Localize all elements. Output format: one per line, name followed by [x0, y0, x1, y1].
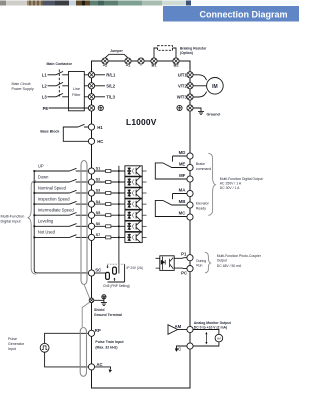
brace digital input — [28, 181, 36, 275]
optocoupler S3 — [125, 188, 142, 198]
svg-text:Output: Output — [217, 259, 227, 263]
wire W/T3 to motor — [193, 92, 207, 97]
svg-text:V/T2: V/T2 — [178, 83, 188, 88]
svg-text:Input: Input — [8, 347, 16, 351]
svg-text:MC: MC — [179, 211, 186, 216]
voltage double arrow — [205, 332, 207, 345]
wire filter to T/L3 — [84, 96, 88, 98]
shield ground terminal — [89, 298, 94, 303]
svg-text:During: During — [196, 259, 206, 263]
digital input common bus — [34, 171, 88, 273]
svg-text:S7: S7 — [96, 233, 101, 237]
optocoupler S1 — [125, 166, 142, 176]
svg-text:AM: AM — [217, 337, 221, 341]
svg-text:L2: L2 — [42, 83, 48, 88]
ground symbol — [198, 111, 204, 114]
svg-text:DC 48V / 50 mA: DC 48V / 50 mA — [217, 264, 242, 268]
svg-text:Filter: Filter — [72, 93, 81, 97]
svg-text:H1: H1 — [97, 125, 103, 130]
wire to ground symbol — [193, 108, 201, 111]
terminal - — [138, 58, 144, 64]
svg-text:Main Contactor: Main Contactor — [47, 62, 73, 66]
terminal S2 — [88, 179, 94, 185]
svg-text:HC: HC — [97, 139, 103, 144]
svg-text:SC: SC — [95, 268, 101, 273]
svg-text:Intermediate Speed: Intermediate Speed — [38, 208, 74, 213]
svg-text:Leveling: Leveling — [38, 219, 54, 224]
svg-text:Multi-Function: Multi-Function — [1, 215, 25, 219]
terminal AC pulse common — [88, 364, 94, 370]
meter M2 — [215, 334, 223, 342]
photo thumbnail strip — [0, 1, 299, 6]
svg-text:DC 0 to +10 V (2 mA): DC 0 to +10 V (2 mA) — [194, 325, 227, 329]
svg-text:R/L1: R/L1 — [106, 73, 116, 78]
wire SC to jumper — [95, 272, 106, 274]
terminal S7 — [88, 234, 94, 240]
earth circle small — [102, 295, 106, 299]
svg-text:Multi-Function Digital Output: Multi-Function Digital Output — [220, 177, 263, 181]
svg-text:Analog Monitor Output: Analog Monitor Output — [194, 321, 232, 325]
svg-text:Pulse: Pulse — [8, 337, 17, 341]
svg-text:S6: S6 — [96, 222, 101, 226]
terminal SC — [88, 270, 94, 276]
input resistor S7 — [95, 236, 125, 238]
terminal PE ground — [88, 105, 94, 111]
svg-text:(Option): (Option) — [180, 51, 193, 55]
shield drain wire top — [84, 284, 90, 298]
optocoupler S7 — [125, 232, 142, 242]
earth symbol right — [177, 105, 182, 110]
pulse generator symbol — [40, 343, 49, 352]
svg-text:DC 30V / 1 A: DC 30V / 1 A — [220, 186, 240, 190]
svg-text:Jumper: Jumper — [110, 49, 123, 53]
wire to PC — [174, 267, 187, 270]
line filter FL1 — [69, 72, 85, 111]
svg-text:command: command — [196, 167, 211, 171]
svg-text:Ground: Ground — [207, 112, 221, 116]
svg-text:W/T3: W/T3 — [177, 95, 188, 100]
contactor mechanical link (dashed) — [58, 70, 60, 98]
svg-text:T/L3: T/L3 — [106, 95, 115, 100]
optocoupler S5 — [125, 210, 142, 220]
svg-text:U/T1: U/T1 — [178, 72, 188, 77]
terminal +1 — [125, 58, 131, 64]
svg-text:IM: IM — [212, 84, 218, 90]
CN5 sink/source jumper block — [106, 264, 125, 282]
svg-text:Elevator: Elevator — [196, 202, 210, 206]
base block jumper loop — [63, 127, 88, 141]
terminal RP — [88, 330, 94, 336]
jumper between +2 and +1 — [105, 54, 128, 58]
svg-text:S1: S1 — [96, 167, 101, 171]
input resistor S5 — [95, 214, 125, 216]
optocoupler S6 — [125, 221, 142, 231]
pulse generator PG loop — [45, 333, 89, 367]
input resistor S1 — [95, 170, 125, 172]
relay output MD/ME/MF — [155, 156, 187, 179]
title banner — [163, 6, 299, 22]
wire filter to R/L1 — [84, 74, 88, 76]
terminal B1 — [151, 58, 157, 64]
wire PE inside filter — [69, 107, 89, 109]
svg-text:AM: AM — [175, 324, 182, 329]
svg-text:Ground Terminal: Ground Terminal — [94, 313, 122, 317]
terminal S3 — [88, 190, 94, 196]
svg-text:RP: RP — [95, 328, 101, 333]
terminal S/L2 — [88, 83, 94, 89]
svg-text:B2: B2 — [173, 62, 179, 67]
relay output MA/MB/MC — [155, 194, 187, 217]
terminal +2 — [102, 58, 108, 64]
svg-text:L1: L1 — [42, 72, 48, 77]
svg-text:MA: MA — [179, 188, 186, 193]
optocoupler S4 — [125, 199, 142, 209]
earth symbol left — [98, 105, 103, 110]
svg-text:Brake: Brake — [196, 162, 205, 166]
svg-text:PC: PC — [181, 270, 187, 275]
svg-text:Down: Down — [38, 174, 49, 179]
svg-text:MF: MF — [179, 173, 186, 178]
brace photocoupler output — [205, 252, 211, 273]
svg-text:MD: MD — [179, 150, 186, 155]
input resistor S4 — [95, 203, 125, 205]
terminal R/L1 — [88, 72, 94, 78]
svg-text:UP: UP — [38, 163, 44, 168]
input resistor S6 — [95, 225, 125, 227]
input resistor S3 — [95, 192, 125, 194]
svg-text:Line: Line — [73, 87, 80, 91]
terminal HC — [88, 138, 94, 144]
svg-text:CN5 (PNP Setting): CN5 (PNP Setting) — [103, 284, 130, 288]
wire to P1 — [174, 257, 187, 260]
svg-text:Power Supply: Power Supply — [12, 87, 34, 91]
svg-text:Multi-Function Photo-Coupler: Multi-Function Photo-Coupler — [217, 254, 262, 258]
svg-text:ME: ME — [179, 162, 186, 167]
svg-text:Connection Diagram: Connection Diagram — [199, 10, 287, 20]
wire amp to AM — [178, 329, 187, 331]
svg-text:B1: B1 — [151, 62, 157, 67]
earth bars — [101, 303, 107, 306]
shielded cable oval (digital inputs) — [81, 161, 87, 285]
svg-text:Run: Run — [196, 264, 202, 268]
shield drain wire bottom — [82, 302, 89, 327]
svg-text:Digital Input: Digital Input — [1, 220, 22, 224]
svg-text:IP 24V (2A): IP 24V (2A) — [127, 266, 143, 270]
photocoupler U2 during run — [156, 256, 175, 271]
svg-text:Main Circuit: Main Circuit — [12, 82, 31, 86]
svg-text:Ready: Ready — [196, 207, 206, 211]
terminal S5 — [88, 212, 94, 218]
svg-text:S5: S5 — [96, 211, 101, 215]
wire V/T2 to motor — [193, 85, 206, 87]
input resistor S2 — [95, 181, 125, 183]
wire U/T1 to motor — [193, 75, 207, 80]
terminal H1 — [88, 124, 94, 130]
svg-text:(Max. 32 kHz): (Max. 32 kHz) — [95, 345, 117, 349]
terminal S6 — [88, 223, 94, 229]
braking resistor R1 (option) — [154, 46, 176, 58]
svg-text:L1000V: L1000V — [126, 117, 157, 127]
wire AC left stub with shield arrow — [177, 346, 187, 348]
svg-text:Shield: Shield — [94, 308, 105, 312]
svg-text:Inspection Speed: Inspection Speed — [38, 196, 70, 201]
shield arrow symbol — [109, 369, 112, 373]
optocoupler common rail — [118, 166, 120, 274]
terminal T/L3 — [88, 94, 94, 100]
wire AC to meter — [193, 342, 219, 346]
terminal S1 — [88, 168, 94, 174]
wire to earth point — [94, 299, 104, 303]
terminal ground right — [187, 105, 193, 111]
analog output buffer amp — [168, 325, 178, 335]
wire filter to S/L2 — [84, 85, 88, 87]
terminal B2 — [173, 58, 179, 64]
svg-text:Braking Resistor: Braking Resistor — [180, 46, 207, 50]
svg-text:PE: PE — [43, 106, 49, 111]
svg-text:S2: S2 — [96, 178, 101, 182]
terminal S4 — [88, 201, 94, 207]
svg-text:Nominal Speed: Nominal Speed — [38, 185, 67, 190]
svg-text:+2: +2 — [103, 62, 108, 67]
svg-text:S/L2: S/L2 — [106, 84, 116, 89]
svg-text:P1: P1 — [181, 252, 187, 257]
shielded cable oval (pulse input) — [80, 328, 86, 377]
svg-text:Not Used: Not Used — [38, 230, 56, 235]
svg-text:MB: MB — [179, 199, 186, 204]
drive enclosure U1 L1000V outline — [92, 61, 191, 388]
svg-text:+1: +1 — [126, 62, 131, 67]
brace digital output — [208, 153, 215, 215]
svg-text:Pulse Train Input: Pulse Train Input — [95, 340, 124, 344]
svg-text:Generator: Generator — [8, 342, 25, 346]
wire AC stub to shield arrow — [95, 367, 111, 369]
svg-text:S3: S3 — [96, 189, 101, 193]
wire AM to meter — [193, 330, 219, 335]
svg-text:AC 250V / 1 A: AC 250V / 1 A — [220, 182, 242, 186]
svg-text:Base Block: Base Block — [40, 130, 59, 134]
optocoupler S2 — [125, 177, 142, 187]
motor M1 IM — [207, 78, 224, 95]
svg-text:L3: L3 — [42, 94, 48, 99]
